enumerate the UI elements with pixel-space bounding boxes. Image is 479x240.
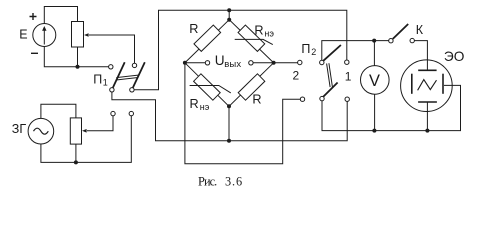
junction: ЭО bottom lead on rail bbox=[425, 129, 429, 133]
wire: R2 bottom lead bbox=[75, 144, 77, 162]
svg-text:ЗГ: ЗГ bbox=[12, 122, 27, 136]
junction: R2 bottom on ЗГ bottom rail bbox=[74, 160, 78, 164]
wire: E plus to rheostat R1 top bbox=[44, 7, 77, 24]
svg-text:U: U bbox=[215, 53, 225, 68]
svg-text:2: 2 bbox=[293, 69, 300, 83]
wire: П2 pole A to switch К bbox=[322, 41, 389, 61]
wire: bridge bottom vertex to bottom rail bbox=[228, 106, 230, 141]
switch П1 bbox=[109, 62, 145, 116]
oscilloscope ЭО bbox=[401, 60, 453, 112]
wire: bridge left vertex down around to П2 contact 2 lower bbox=[185, 63, 300, 164]
wire: К to ЭО top plate bbox=[414, 41, 427, 71]
svg-text:2: 2 bbox=[311, 47, 316, 57]
wire: bridge left vertex to Uвых left terminal bbox=[185, 62, 205, 64]
wire: R2 wiper to П1 lower left contact bbox=[87, 116, 113, 131]
junction: bridge left vertex bbox=[183, 61, 187, 65]
resistor R (top left arm) bbox=[194, 25, 221, 51]
junction: bridge bottom vertex bbox=[227, 104, 231, 108]
label Rнэ bottom left bbox=[190, 97, 210, 112]
wire: bridge right vertex to П2 contact 2 upper bbox=[274, 62, 298, 64]
resistor Rнэ (bottom left arm) bbox=[190, 74, 231, 100]
source E bbox=[33, 24, 56, 47]
wire: E minus rail to П1 upper left contact bbox=[44, 47, 108, 67]
resistor Rнэ (top right arm) bbox=[235, 25, 273, 51]
svg-text:1: 1 bbox=[345, 69, 352, 83]
junction: bridge top vertex bbox=[227, 18, 231, 22]
label Uвых bbox=[215, 53, 242, 70]
wire: ЭО bottom plate lead bbox=[426, 102, 428, 131]
node: Uвых right terminal bbox=[249, 61, 253, 65]
svg-text:R: R bbox=[254, 23, 263, 37]
svg-text:V: V bbox=[369, 72, 380, 90]
switch К bbox=[389, 24, 415, 43]
wire: П1 right pole to top rail to П2 contact 1 upper bbox=[134, 10, 347, 90]
wire: П2 pole B to bottom measurement rail and ЭО right plate bbox=[322, 85, 461, 130]
junction: bridge top stub on top rail bbox=[227, 8, 231, 12]
wire: top rail stub to bridge top vertex bbox=[228, 10, 230, 19]
svg-text:R: R bbox=[190, 97, 199, 111]
wire: R1 wiper to П1 upper right contact bbox=[89, 35, 135, 63]
junction: bridge right vertex bbox=[272, 61, 276, 65]
switch П2 bbox=[298, 45, 350, 101]
svg-text:R: R bbox=[252, 92, 261, 106]
svg-text:1: 1 bbox=[103, 77, 108, 87]
svg-text:вых: вых bbox=[224, 59, 241, 70]
svg-text:нэ: нэ bbox=[200, 102, 210, 112]
minus terminal mark bbox=[31, 52, 38, 54]
svg-text:ЭО: ЭО bbox=[444, 49, 465, 64]
svg-text:П: П bbox=[93, 72, 102, 86]
node: Uвых left terminal bbox=[205, 61, 209, 65]
label Rнэ top right bbox=[254, 23, 274, 38]
plus terminal mark bbox=[30, 13, 37, 20]
svg-text:R: R bbox=[189, 22, 198, 36]
svg-text:К: К bbox=[416, 23, 424, 37]
label П1 bbox=[93, 72, 108, 87]
svg-text:П: П bbox=[301, 42, 310, 56]
junction: voltmeter bottom tap bbox=[372, 129, 376, 133]
source ЗГ bbox=[28, 118, 54, 144]
junction: bottom rail at bridge bottom stub bbox=[227, 139, 231, 143]
wire: voltmeter top lead bbox=[373, 41, 375, 66]
junction: voltmeter top tap bbox=[372, 39, 376, 43]
rheostat R1 bbox=[72, 22, 89, 48]
junction: R1 bottom on E minus rail bbox=[76, 65, 80, 69]
wheatstone bridge wires bbox=[185, 20, 274, 107]
wire: ЗГ top to rheostat R2 top bbox=[41, 104, 76, 118]
rheostat R2 bbox=[70, 118, 86, 144]
svg-text:нэ: нэ bbox=[264, 28, 274, 38]
svg-text:3.6: 3.6 bbox=[225, 174, 243, 188]
svg-text:E: E bbox=[19, 27, 27, 41]
wire: Uвых right terminal to bridge right vertex bbox=[253, 62, 274, 64]
wire: П1 left pole to bottom rail to П2 contact 1 lower bbox=[112, 92, 347, 141]
svg-text:Рис.: Рис. bbox=[198, 174, 217, 188]
wire: ЗГ bottom rail to П1 lower right contact bbox=[41, 116, 131, 163]
label П2 bbox=[301, 42, 316, 57]
wire: R1 bottom lead bbox=[77, 47, 79, 67]
voltmeter V bbox=[361, 66, 390, 95]
wire: voltmeter bottom lead bbox=[374, 94, 376, 130]
resistor R (bottom right arm) bbox=[238, 74, 265, 100]
